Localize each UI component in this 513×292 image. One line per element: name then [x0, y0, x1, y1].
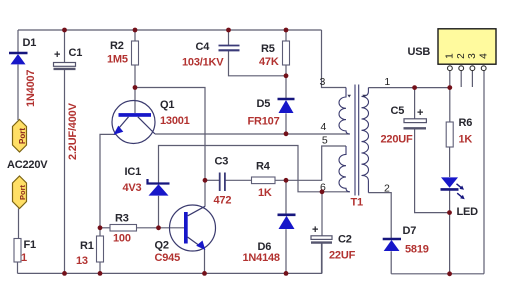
wire D6 top [285, 180, 287, 214]
svg-text:13001: 13001 [160, 115, 190, 127]
connector Port 2 [13, 176, 27, 209]
node rail Q2 [202, 271, 207, 276]
wire C5 bottom L [415, 130, 450, 213]
transistor Q2 [155, 205, 216, 264]
wire R2 bottom to Q1 base node [134, 65, 136, 113]
node R4 right [284, 178, 289, 183]
svg-text:D5: D5 [257, 98, 271, 110]
svg-text:1K: 1K [258, 187, 272, 199]
svg-text:2.2UF/400V: 2.2UF/400V [67, 102, 79, 160]
node R5 bottom [284, 73, 289, 78]
wire R2 top [134, 30, 136, 41]
capacitor C2 [311, 224, 356, 262]
svg-text:1M5: 1M5 [107, 54, 128, 66]
svg-text:F1: F1 [24, 239, 37, 251]
wire Q1 base node to Q2 collector [135, 88, 205, 207]
connector Port 1 [13, 120, 28, 153]
svg-text:3: 3 [320, 76, 326, 88]
svg-text:4V3: 4V3 [123, 182, 142, 194]
wire R1 bottom [99, 262, 101, 273]
wire bottom left rail [18, 243, 322, 273]
wire C2 bottom [321, 243, 323, 273]
wire pin 2 to D7 [368, 193, 391, 239]
svg-text:Port: Port [18, 184, 27, 200]
wire pin 1 to USB [368, 87, 449, 89]
svg-text:1: 1 [384, 76, 390, 88]
svg-text:103/1KV: 103/1KV [182, 57, 224, 69]
svg-text:472: 472 [214, 195, 232, 207]
node rail C1 [62, 271, 67, 276]
svg-text:2: 2 [384, 183, 390, 195]
diode D1 [9, 37, 37, 107]
fuse F1 [14, 239, 21, 263]
capacitor C4 [182, 41, 240, 69]
node R3 zener [156, 225, 161, 230]
core [354, 85, 356, 196]
svg-text:C3: C3 [215, 156, 229, 168]
wire LED bottom [449, 190, 451, 274]
svg-text:C5: C5 [391, 105, 405, 117]
node D5 bottom [284, 131, 289, 136]
diode D5 [248, 98, 295, 128]
svg-text:C945: C945 [155, 252, 181, 264]
svg-text:T1: T1 [351, 197, 364, 209]
wire D1 bottom to port [17, 65, 19, 121]
resistor R2 [132, 41, 139, 65]
svg-text:C1: C1 [69, 47, 83, 59]
wire port2 to F1 [18, 209, 20, 239]
diode D7 [383, 225, 429, 256]
svg-text:D1: D1 [23, 37, 37, 49]
svg-text:220UF: 220UF [381, 134, 413, 146]
node rail LED [447, 271, 452, 276]
LED [441, 177, 479, 218]
wire USB pin4 drop [483, 71, 485, 274]
polarity mark left [347, 95, 351, 98]
wire USB pin3 stub [471, 71, 473, 87]
wire C3 to R4 [225, 179, 251, 181]
svg-text:+: + [417, 107, 423, 119]
wire Q1 collector to transformer pin 4 [155, 133, 350, 135]
wire R3 right to Q2 base [137, 227, 185, 229]
svg-text:22UF: 22UF [329, 250, 356, 262]
svg-text:1N4007: 1N4007 [25, 70, 37, 107]
svg-text:IC1: IC1 [125, 166, 142, 178]
svg-text:5819: 5819 [405, 244, 429, 256]
svg-text:C2: C2 [338, 234, 352, 246]
svg-text:FR107: FR107 [248, 116, 280, 128]
node C2 top [320, 189, 325, 194]
wire bottom right rail [391, 273, 484, 275]
svg-text:AC220V: AC220V [7, 159, 48, 171]
wire R6 top [449, 88, 451, 122]
svg-text:3: 3 [467, 53, 478, 59]
pin circles [448, 66, 487, 71]
svg-text:4: 4 [321, 121, 327, 133]
polarity mark right [362, 95, 366, 98]
svg-text:Port: Port [18, 128, 27, 144]
resistor R5 [283, 41, 290, 65]
svg-text:Q2: Q2 [155, 240, 169, 252]
capacitor C1 [54, 47, 83, 160]
wire USB pin2 stub [460, 71, 462, 87]
wire R4 right to pin 5 [275, 146, 346, 180]
wire top rail [18, 29, 322, 31]
node LED C5 [447, 210, 452, 215]
zener IC1 [123, 166, 170, 196]
wire C4 top [228, 30, 230, 45]
resistor R6 [446, 122, 453, 147]
node C3 left [203, 178, 208, 183]
svg-text:4: 4 [478, 53, 489, 59]
wire D1 top [17, 30, 19, 53]
svg-text:R3: R3 [115, 213, 129, 225]
wire C4 bottom to R5 bottom [229, 51, 287, 76]
wire pin3 drop [322, 30, 347, 88]
wire C5 top [414, 88, 416, 119]
wire D7 bottom [390, 251, 392, 273]
node rail R1 [98, 271, 103, 276]
node Q1 base [133, 85, 138, 90]
wire C1 top [64, 30, 66, 63]
wire D6 bottom [285, 229, 287, 273]
svg-text:R4: R4 [256, 161, 271, 173]
svg-text:+: + [54, 49, 60, 61]
svg-text:C4: C4 [196, 41, 211, 53]
svg-text:1: 1 [21, 252, 27, 264]
svg-text:13: 13 [76, 255, 88, 267]
node C5 top [412, 85, 417, 90]
connector USB [408, 29, 497, 71]
primary winding 5-6 [339, 146, 350, 192]
node rail D6 [284, 271, 289, 276]
capacitor C3 [214, 156, 232, 207]
svg-text:R6: R6 [459, 117, 473, 129]
node C4 top [226, 28, 231, 33]
node R5 top [284, 28, 289, 33]
wire R5 top [285, 30, 287, 41]
wire USB pin1 stub [449, 71, 451, 88]
svg-text:R2: R2 [110, 40, 124, 52]
wire F1 bottom [17, 262, 19, 273]
wire C2 top to pin6 [321, 192, 323, 236]
svg-text:LED: LED [457, 206, 479, 218]
svg-text:1N4148: 1N4148 [243, 252, 280, 264]
svg-text:D7: D7 [403, 225, 417, 237]
wire zener top to pin 6 [159, 146, 350, 192]
svg-text:47K: 47K [259, 56, 279, 68]
svg-text:1: 1 [445, 53, 456, 59]
resistor R1 [97, 236, 104, 262]
primary winding 3-4 [339, 88, 350, 135]
svg-text:2: 2 [456, 53, 467, 59]
wire R6 to LED [449, 147, 451, 177]
svg-text:5: 5 [322, 135, 328, 147]
resistor R4 [252, 177, 276, 184]
svg-text:R1: R1 [80, 240, 94, 252]
node R2 top [133, 28, 138, 33]
wire Q2 emitter drop [204, 249, 206, 274]
wire zener bottom [158, 196, 160, 228]
diode D6 [243, 215, 296, 264]
resistor R3 [110, 225, 137, 232]
wire R3 left [100, 227, 110, 229]
svg-text:R5: R5 [261, 43, 275, 55]
capacitor C5 [381, 105, 427, 146]
node C1 top [62, 28, 67, 33]
wire D5 to pin4 wire [285, 113, 287, 134]
svg-text:1K: 1K [459, 134, 473, 146]
svg-text:Q1: Q1 [160, 99, 174, 111]
svg-text:USB: USB [408, 46, 431, 58]
wire C1 bottom [64, 70, 66, 274]
transformer T1 [339, 85, 369, 196]
wire Q2 collector node to C3 [205, 179, 219, 181]
transistor Q1 [112, 99, 190, 144]
wire Q1 emitter to R1 [100, 134, 117, 236]
wire R5 to D5 [285, 65, 287, 99]
secondary winding 1-2 [362, 88, 369, 193]
svg-text:100: 100 [113, 233, 131, 245]
node R6 top [447, 85, 452, 90]
node Q1 emitter R3 [98, 225, 103, 230]
svg-text:+: + [312, 224, 318, 236]
